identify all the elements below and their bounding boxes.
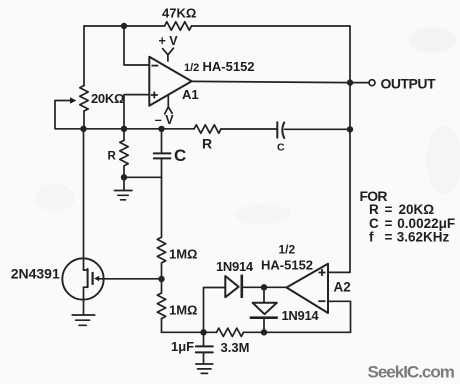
svg-text:1MΩ: 1MΩ [169, 247, 197, 262]
svg-text:HA-5152: HA-5152 [203, 59, 255, 74]
svg-text:A1: A1 [182, 87, 199, 102]
svg-text:OUTPUT: OUTPUT [381, 76, 437, 92]
svg-text:+ V: + V [159, 34, 179, 48]
svg-text:20KΩ: 20KΩ [91, 91, 124, 106]
svg-text:R: R [108, 151, 117, 163]
svg-text:1MΩ: 1MΩ [169, 303, 197, 318]
svg-text:– V: – V [155, 113, 174, 127]
svg-text:HA-5152: HA-5152 [261, 257, 313, 272]
svg-text:R: R [202, 135, 212, 151]
svg-text:3.3M: 3.3M [221, 340, 250, 355]
svg-text:C: C [174, 146, 186, 165]
svg-text:2N4391: 2N4391 [11, 265, 60, 281]
svg-text:C: C [277, 142, 285, 154]
svg-text:47KΩ: 47KΩ [162, 6, 196, 21]
svg-text:1N914: 1N914 [216, 259, 254, 274]
svg-text:1μF: 1μF [171, 339, 194, 354]
svg-text:1/2: 1/2 [184, 62, 199, 74]
svg-text:SeekIC.com: SeekIC.com [368, 363, 455, 382]
svg-text:1/2: 1/2 [279, 243, 296, 257]
svg-text:A2: A2 [334, 280, 351, 295]
svg-text:1N914: 1N914 [282, 308, 320, 323]
